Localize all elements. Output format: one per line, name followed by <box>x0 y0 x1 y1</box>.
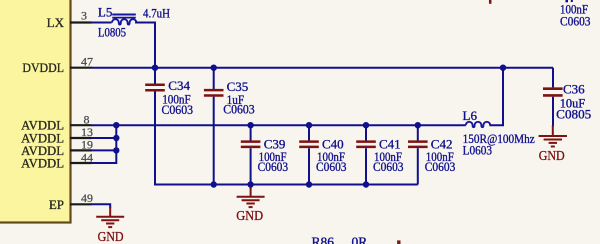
svg-text:GND: GND <box>539 149 565 164</box>
wire C41 bottom stub <box>365 148 367 184</box>
C40 footprint label C0603 <box>316 159 347 174</box>
svg-text:C0603: C0603 <box>258 159 289 174</box>
wire C42 top stub <box>417 125 419 140</box>
capacitor C39 <box>241 142 261 147</box>
node junction C35 on DVDDL net <box>211 65 217 71</box>
node junction L6 on DVDDL net <box>500 65 506 71</box>
svg-text:EP: EP <box>49 197 64 212</box>
ground GND below EP <box>96 207 124 244</box>
svg-text:L0603: L0603 <box>463 142 493 157</box>
wire ground net (bottom horizontal) <box>154 184 418 186</box>
svg-text:DVDDL: DVDDL <box>22 60 64 75</box>
C34 designator label <box>168 78 190 93</box>
wire EP pin to ground <box>91 204 110 208</box>
C35 value label 1uF <box>227 92 245 107</box>
wire C36 drop from DVDDL net <box>552 68 554 88</box>
L6 designator label <box>463 108 478 123</box>
R86 value label 0R (clipped at bottom) <box>352 234 368 244</box>
svg-text:49: 49 <box>81 191 93 205</box>
pin EP pin 49 <box>49 191 93 212</box>
svg-text:0R: 0R <box>352 234 368 244</box>
pin DVDDL pin 47 <box>22 55 93 75</box>
IC component body U (partial, left) <box>0 0 71 223</box>
svg-text:C0603: C0603 <box>560 13 591 28</box>
inductor L6 <box>466 122 490 127</box>
wire C41 top stub <box>365 125 367 140</box>
svg-text:C0603: C0603 <box>425 159 456 174</box>
C34 footprint label C0603 <box>162 102 194 117</box>
ground GND below ground net <box>236 188 264 224</box>
node junction C42 on AVDDL net <box>415 122 421 128</box>
node junction C41/ground net <box>363 181 369 187</box>
node junction pin19/bus <box>113 147 119 153</box>
svg-text:L6: L6 <box>463 108 478 123</box>
capacitor stub cut off at top edge (C43) <box>489 0 492 4</box>
resistor R86 designator label (clipped at bottom) <box>312 234 335 244</box>
ground GND below C36 <box>539 125 567 164</box>
C42 footprint label C0603 <box>425 159 456 174</box>
C41 designator label <box>379 137 401 152</box>
L6 footprint label L0603 <box>463 142 493 157</box>
C42 designator label <box>431 137 453 152</box>
C36 designator label <box>563 81 585 96</box>
wire C39 top stub <box>250 125 252 140</box>
pin AVDDL pin 8 <box>21 112 91 132</box>
node junction pin8/bus <box>113 122 119 128</box>
L5 value label 4.7uH <box>143 5 170 20</box>
L6 value label 150R@100Mhz <box>463 131 535 146</box>
wire C39 bottom stub <box>250 148 252 184</box>
wire C42 bottom stub <box>417 148 419 184</box>
inductor L5 <box>112 15 136 25</box>
wire C34 bottom stub to ground net <box>154 91 156 184</box>
node junction C35/ground net <box>211 181 217 187</box>
C39 footprint label C0603 <box>258 159 289 174</box>
C36 footprint label C0805 <box>556 106 591 121</box>
node junction C40 on AVDDL net <box>306 122 312 128</box>
svg-text:AVDDL: AVDDL <box>21 156 64 171</box>
svg-text:L5: L5 <box>98 4 112 19</box>
wire C35 bottom stub to ground net <box>213 97 215 185</box>
node junction L5/C34 on DVDDL net <box>152 65 158 71</box>
C40 designator label <box>322 137 344 152</box>
wire AVDDL pin 19 to bus <box>91 149 116 151</box>
capacitor C35 <box>204 90 224 95</box>
node junction C40/ground net <box>306 181 312 187</box>
L5 designator label <box>98 4 112 19</box>
svg-text:LX: LX <box>47 15 65 30</box>
C40 value label 100nF <box>317 149 345 164</box>
wire L6 to DVDDL net (up) <box>489 68 503 126</box>
capacitor C34 <box>145 85 165 90</box>
pin AVDDL pin 44 <box>21 151 93 171</box>
svg-text:C0603: C0603 <box>373 159 404 174</box>
C36 value label 10uF <box>560 95 586 110</box>
svg-text:47: 47 <box>81 55 93 69</box>
C43 label fragments at top edge <box>566 0 573 2</box>
svg-text:C0603: C0603 <box>162 102 194 117</box>
svg-text:GND: GND <box>236 209 263 224</box>
capacitor C42 <box>408 142 428 147</box>
capacitor C36 <box>543 89 563 96</box>
svg-text:C0805: C0805 <box>556 106 591 121</box>
svg-text:C0603: C0603 <box>223 102 255 117</box>
svg-text:C0603: C0603 <box>316 159 347 174</box>
wire C34 top stub <box>154 68 156 84</box>
pin AVDDL pin 19 <box>21 137 93 158</box>
capacitor C40 <box>299 142 319 147</box>
C42 value label 100nF <box>426 149 454 164</box>
svg-text:3: 3 <box>81 9 87 23</box>
wire ground stub below ground net <box>250 185 252 190</box>
node junction C39-GND/ground net <box>247 181 253 187</box>
node junction pin13/bus <box>113 135 119 141</box>
C34 value label 100nF <box>162 91 191 106</box>
wire AVDDL pin bus (vertical) <box>115 125 117 164</box>
node junction C39 on AVDDL net <box>247 122 253 128</box>
wire LX pin to L5 <box>91 22 112 24</box>
svg-text:C36: C36 <box>563 81 585 96</box>
wire L5 to DVDDL net (down) <box>135 23 155 68</box>
wire C40 bottom stub <box>308 148 310 184</box>
svg-text:GND: GND <box>98 230 124 244</box>
C43 footprint label C0603 (top right) <box>560 13 591 28</box>
svg-text:L0805: L0805 <box>98 24 126 39</box>
C39 designator label <box>264 137 286 152</box>
C35 designator label <box>227 79 249 94</box>
wire AVDDL net (horizontal pin8 to L6) <box>91 124 466 126</box>
C39 value label 100nF <box>259 149 287 164</box>
pin LX pin 3 <box>47 9 92 30</box>
svg-text:19: 19 <box>81 137 93 151</box>
wire C35 top stub <box>213 68 215 89</box>
L5 footprint label L0805 <box>98 24 126 39</box>
wire DVDDL net (horizontal) <box>92 67 553 69</box>
C41 footprint label C0603 <box>373 159 404 174</box>
power stub clipped at bottom edge <box>397 240 400 244</box>
C35 footprint label C0603 <box>223 102 255 117</box>
svg-text:4.7uH: 4.7uH <box>143 5 170 20</box>
wire AVDDL pin 13 to bus <box>91 137 116 139</box>
node junction C41 on AVDDL net <box>363 122 369 128</box>
pin AVDDL pin 13 <box>21 125 93 146</box>
capacitor C41 <box>356 142 376 147</box>
wire C40 top stub <box>308 125 310 140</box>
wire C36 bottom stub <box>552 97 554 127</box>
wire AVDDL pin 44 to bus <box>91 162 116 164</box>
C41 value label 100nF <box>374 149 402 164</box>
C43 value label 100nF (top right) <box>560 1 588 16</box>
svg-text:R86: R86 <box>312 234 335 244</box>
